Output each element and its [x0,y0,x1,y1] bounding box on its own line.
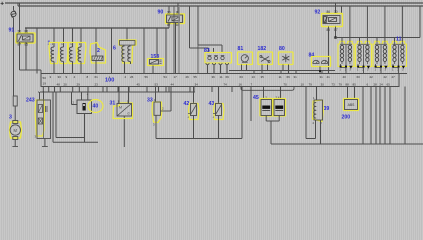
svg-text:13: 13 [252,75,256,79]
svg-text:86: 86 [25,29,29,33]
svg-text:33: 33 [58,75,62,79]
svg-text:29: 29 [77,82,81,86]
svg-text:79: 79 [309,82,313,86]
svg-text:3: 3 [9,115,12,121]
svg-text:45: 45 [253,95,259,101]
svg-text:80: 80 [279,46,285,52]
svg-text:31: 31 [320,75,324,79]
svg-text:1: 1 [392,69,394,72]
svg-text:+: + [0,1,4,8]
svg-text:3: 3 [402,69,404,72]
svg-text:35: 35 [261,75,265,79]
svg-text:31: 31 [294,75,298,79]
svg-text:26: 26 [186,75,190,79]
svg-text:24: 24 [380,82,384,86]
svg-text:61: 61 [95,75,99,79]
svg-text:M: M [119,106,122,110]
svg-text:3: 3 [50,75,52,79]
svg-text:10: 10 [301,82,305,86]
svg-text:16: 16 [239,82,243,86]
svg-text:40: 40 [343,75,347,79]
svg-text:30: 30 [167,11,171,15]
svg-text:85: 85 [353,82,357,86]
svg-text:81: 81 [238,46,244,52]
svg-text:4: 4 [74,75,76,79]
svg-text:91: 91 [9,28,15,34]
svg-text:86: 86 [327,10,331,14]
svg-text:90: 90 [158,10,164,16]
svg-text:1: 1 [357,69,359,72]
svg-text:2: 2 [313,121,315,125]
svg-text:26: 26 [130,75,134,79]
svg-text:88: 88 [346,82,350,86]
svg-text:17: 17 [174,75,178,79]
svg-text:3: 3 [153,123,155,127]
svg-text:50: 50 [43,76,47,80]
svg-text:40: 40 [93,104,99,110]
svg-text:20: 20 [64,82,68,86]
svg-text:55: 55 [194,75,198,79]
svg-text:11: 11 [279,75,282,79]
svg-text:3: 3 [367,69,369,72]
svg-text:30: 30 [334,10,338,14]
svg-text:54: 54 [164,75,168,79]
svg-text:-t: -t [188,115,190,119]
svg-text:2: 2 [162,107,164,111]
svg-text:19: 19 [43,82,47,86]
svg-text:39: 39 [324,106,330,112]
svg-text:ABS: ABS [348,103,356,107]
svg-text:-t: -t [213,115,215,119]
svg-text:3: 3 [385,69,387,72]
svg-text:56: 56 [145,75,149,79]
svg-text:d: d [128,112,130,116]
svg-text:200: 200 [342,115,351,121]
svg-text:2: 2 [125,75,127,79]
svg-text:7: 7 [251,82,253,86]
svg-text:1: 1 [375,69,377,72]
svg-text:8: 8 [87,75,89,79]
svg-text:69: 69 [226,75,230,79]
svg-text:44: 44 [171,82,175,86]
svg-text:23: 23 [95,82,99,86]
svg-text:22: 22 [370,75,374,79]
svg-text:73: 73 [332,82,336,86]
svg-text:1: 1 [313,96,315,100]
svg-text:6: 6 [367,82,369,86]
svg-text:36: 36 [212,75,216,79]
svg-text:M: M [14,128,18,133]
svg-text:48: 48 [57,82,61,86]
svg-text:3: 3 [350,69,352,72]
svg-text:1: 1 [340,69,342,72]
svg-text:2: 2 [73,101,75,105]
svg-text:63: 63 [240,75,244,79]
svg-text:92: 92 [315,10,321,16]
svg-text:65: 65 [387,82,391,86]
svg-text:74: 74 [224,82,228,86]
svg-text:243: 243 [26,98,35,104]
svg-text:60: 60 [357,75,361,79]
svg-text:30: 30 [18,29,22,33]
svg-text:45: 45 [137,82,141,86]
svg-text:182: 182 [258,46,267,52]
svg-text:79: 79 [339,82,343,86]
svg-text:66: 66 [287,75,291,79]
svg-text:30: 30 [321,82,325,86]
svg-text:53: 53 [155,82,159,86]
svg-text:70: 70 [284,82,288,86]
svg-text:34: 34 [195,82,199,86]
svg-text:41: 41 [327,75,331,79]
svg-text:31: 31 [110,101,116,107]
svg-text:22: 22 [384,75,388,79]
svg-text:27: 27 [392,75,396,79]
svg-text:9: 9 [66,75,68,79]
svg-text:2: 2 [97,48,100,54]
svg-text:6: 6 [113,46,116,52]
svg-text:28: 28 [374,82,378,86]
svg-text:11: 11 [220,75,223,79]
